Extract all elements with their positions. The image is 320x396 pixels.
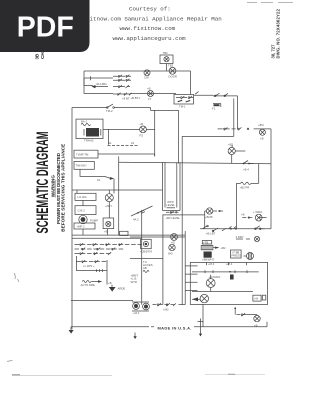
- arrow to timer A: [92, 82, 109, 88]
- relay CB/DTM: [140, 239, 153, 253]
- protector box inside motor box: [253, 295, 261, 301]
- diagonal jumper wire: [131, 206, 153, 222]
- svg-text:+MP 2: +MP 2: [77, 224, 86, 228]
- buzzer BZ bottom right: [254, 315, 260, 328]
- terminal square inside motor box: [262, 295, 266, 300]
- solenoid coil dark: [202, 252, 214, 262]
- dryness sensor cluster: [236, 235, 260, 242]
- svg-text:4A 12B4: 4A 12B4: [96, 82, 107, 86]
- wire inner top rail: [151, 108, 179, 111]
- header courtesy text line 4: [113, 35, 187, 42]
- pressure box: [231, 250, 242, 258]
- svg-text:+B2: +B2: [228, 143, 233, 147]
- lamp DOOR: [168, 64, 177, 79]
- wire main left rail: [71, 108, 73, 330]
- wire bus through AG: [130, 236, 185, 238]
- svg-text:CW: CW: [144, 76, 149, 80]
- dispenser box C-B: [75, 206, 96, 215]
- svg-text:www.applianceguru.com: www.applianceguru.com: [113, 35, 187, 42]
- motor AG2: [168, 244, 175, 255]
- svg-text:+KEY: +KEY: [105, 204, 112, 208]
- svg-text:+B: +B: [147, 86, 151, 90]
- svg-text:K1: K1: [97, 178, 101, 182]
- svg-text:C-B 2: C-B 2: [78, 208, 86, 212]
- svg-text:+B: +B: [140, 122, 144, 126]
- svg-text:MADE IN U.S.A.: MADE IN U.S.A.: [158, 325, 192, 330]
- wire level to buzzer rail: [162, 214, 204, 216]
- wire top bus L1: [84, 70, 191, 72]
- svg-text:TLMR TM: TLMR TM: [76, 152, 89, 156]
- wire vertical x182: [181, 136, 183, 304]
- sheet number text 38,727 (rotated): [270, 44, 275, 59]
- svg-text:AB: AB: [143, 266, 147, 270]
- contacts on lower bus: [202, 225, 264, 235]
- svg-text:+M 2: +M 2: [133, 311, 140, 315]
- svg-text:4A: 4A: [108, 141, 112, 145]
- header courtesy text line 2: [65, 16, 222, 23]
- wire stub row 4: [84, 93, 176, 95]
- svg-text:TB2: TB2: [168, 64, 174, 68]
- stray pen mark left margin: [14, 273, 19, 282]
- water level contacts: [166, 211, 181, 220]
- warning text line before servicing this appliance (rotated): [61, 144, 66, 232]
- wire from T2 to bus: [166, 64, 168, 72]
- svg-text:+M 4: +M 4: [208, 262, 215, 266]
- stray mark lower left margin: [7, 360, 13, 361]
- selector contacts row 4: [76, 260, 106, 268]
- water level switch channel: [163, 162, 181, 210]
- wire rinse rail: [72, 190, 163, 194]
- drawing number text DWG. NO. (rotated): [275, 8, 280, 58]
- wire lower-left bus: [71, 300, 133, 302]
- selector contacts row 2: [75, 248, 124, 251]
- svg-text:WTR: WTR: [131, 280, 137, 284]
- motor protector circle B2: [228, 143, 245, 164]
- svg-text:PUMP: PUMP: [90, 219, 98, 223]
- wire right rail lower: [270, 164, 272, 229]
- wire contacts to right chain: [194, 92, 238, 137]
- wash resistor coil: [81, 280, 103, 287]
- wire rail left of motor box: [184, 231, 186, 305]
- svg-text:24: 24: [131, 141, 135, 145]
- svg-text:PDF: PDF: [17, 11, 74, 43]
- buzzer B38: [205, 208, 223, 229]
- svg-text:3B: 3B: [34, 53, 39, 60]
- svg-text:+B LBT: +B LBT: [206, 232, 216, 236]
- svg-text:+B2 PR: +B2 PR: [240, 186, 250, 190]
- svg-text:+TB: +TB: [203, 240, 208, 244]
- PDF badge: [0, 0, 90, 52]
- heater contacts on right of bus: [243, 161, 254, 172]
- left labels water: [131, 274, 139, 284]
- wire transformer tap down: [107, 129, 109, 144]
- timer switch TM-1 box: [174, 95, 194, 109]
- motor box inlet stubs: [186, 266, 201, 301]
- svg-text:TRANS: TRANS: [84, 139, 94, 143]
- wire interlock lower with arrow: [80, 169, 114, 182]
- svg-text:+B: +B: [104, 230, 108, 234]
- wire top of main box with switch TM-2: [72, 104, 151, 113]
- header courtesy text line 1: [129, 6, 171, 13]
- motor 8M: [258, 123, 265, 140]
- svg-text:DOOR: DOOR: [169, 75, 177, 79]
- svg-text:+ WM4: + WM4: [253, 210, 262, 214]
- bottom return bus: [71, 322, 267, 327]
- wire vertical x114: [113, 179, 115, 194]
- title text SCHEMATIC DIAGRAM (rotated): [33, 132, 52, 234]
- svg-text:BEFORE SERVICING THIS APPLIANC: BEFORE SERVICING THIS APPLIANCE: [61, 144, 66, 232]
- wire inner rail x118: [118, 156, 120, 235]
- svg-text:www.fixitnow.com: www.fixitnow.com: [120, 25, 176, 32]
- svg-text:TIM-KEY: TIM-KEY: [76, 164, 87, 168]
- fuse box on bus: [120, 231, 129, 235]
- svg-text:TM-2: TM-2: [106, 109, 113, 113]
- wire long middle bus: [119, 162, 271, 164]
- svg-text:+B 4: +B 4: [243, 168, 249, 172]
- motor box capacitor mark: [230, 275, 234, 280]
- svg-text:DWG. NO. 72X4362Y22: DWG. NO. 72X4362Y22: [275, 8, 280, 58]
- pressure box with lamp: [103, 218, 114, 234]
- svg-text:4 DRY: 4 DRY: [236, 235, 244, 239]
- lamp P2: [140, 122, 147, 138]
- svg-text:+B: +B: [241, 213, 245, 217]
- wire right rail: [270, 129, 272, 164]
- node label BT1: [131, 96, 141, 100]
- wire right bus down: [190, 71, 192, 95]
- header courtesy text line 3: [120, 25, 176, 32]
- door switch bottom right: [236, 313, 257, 316]
- wire right lower bus: [200, 228, 271, 230]
- wire P2 to vertical: [146, 110, 154, 156]
- warning text line power must be disconnected (rotated): [56, 152, 61, 224]
- svg-text:+L W/S +: +L W/S +: [83, 264, 95, 268]
- svg-text:AG: AG: [171, 240, 175, 244]
- switch contacts SW3 row: [113, 85, 130, 88]
- svg-text:+B BT1: +B BT1: [131, 96, 141, 100]
- switch S5 on right chain: [214, 93, 228, 96]
- svg-text:ARDE: ARDE: [118, 287, 126, 291]
- wire cluster to motor box: [179, 304, 186, 306]
- wire node below motor box: [234, 307, 236, 314]
- svg-text:PRESS: PRESS: [232, 254, 242, 258]
- wire vertical x178: [178, 110, 180, 163]
- faint scan line top right: [247, 2, 293, 4]
- registration mark mid: [133, 333, 136, 340]
- svg-text:Courtesy of:: Courtesy of:: [129, 6, 171, 13]
- wire stub row 2: [84, 71, 113, 94]
- svg-text:+M2: +M2: [163, 307, 169, 311]
- selector wire with terminals: [76, 256, 107, 285]
- svg-text:TB2: TB2: [163, 51, 169, 55]
- bimetal contacts row: [218, 127, 271, 130]
- wire box top right section: [182, 135, 234, 137]
- main motor box: [190, 262, 267, 304]
- lamp LT: [147, 86, 154, 101]
- registration mark right: [198, 319, 204, 337]
- drive motor M2: [200, 294, 208, 302]
- return bus label: [146, 325, 192, 330]
- defrost heater branch: [236, 164, 258, 229]
- svg-text:TM-1: TM-1: [179, 105, 186, 109]
- svg-text:BA-1: BA-1: [81, 120, 88, 124]
- motor start relay cluster: [132, 302, 149, 315]
- svg-text:+8M: +8M: [258, 123, 264, 127]
- thermal fuse on step: [212, 104, 221, 111]
- faint fold line bottom: [12, 374, 265, 375]
- lamp CW: [144, 70, 150, 80]
- terminal box TB: [202, 240, 211, 244]
- svg-text:LO-WA: LO-WA: [78, 195, 87, 199]
- water valve WM: [241, 210, 267, 221]
- transformer T2 box top: [160, 51, 173, 64]
- svg-text:+B: +B: [260, 137, 264, 141]
- pump box: [74, 223, 95, 229]
- svg-text:+B/38: +B/38: [205, 215, 213, 219]
- svg-text:+M: +M: [254, 297, 259, 301]
- motor AG: [171, 234, 178, 245]
- wire transformer to right: [103, 128, 139, 130]
- svg-text:+M 4: +M 4: [226, 262, 233, 266]
- switch contacts SW2 row: [113, 79, 131, 82]
- svg-text:WO: WO: [168, 251, 174, 255]
- corner note 38 CM (rotated, under badge): [34, 49, 45, 59]
- transformer T1 core: [84, 128, 101, 143]
- selector contacts row 1: [75, 243, 143, 246]
- start switch slashes: [153, 303, 177, 311]
- svg-text:4A 2: 4A 2: [133, 218, 139, 222]
- interlock box: [74, 162, 94, 170]
- wire motor box to return bus: [202, 304, 204, 326]
- rinse box LO-WA: [75, 193, 96, 200]
- pump motor blob: [79, 215, 98, 223]
- heater element hatched: [201, 245, 226, 249]
- svg-text:LEVEL: LEVEL: [166, 203, 175, 207]
- lamp KEY: [105, 194, 113, 209]
- svg-text:P2: P2: [140, 134, 144, 138]
- timer motor box: [74, 150, 98, 158]
- svg-text:+8 BT: +8 BT: [122, 97, 130, 101]
- selector contacts row 3: [75, 252, 112, 255]
- svg-text:+M MAIN: +M MAIN: [209, 275, 221, 279]
- switch contacts SW1 row: [113, 75, 131, 78]
- motor box internal bus 2: [192, 291, 253, 293]
- drive motor M1: [206, 275, 215, 292]
- wire left column connectors: [83, 200, 109, 235]
- svg-text:+B2 LEVEL: +B2 LEVEL: [166, 216, 181, 220]
- svg-text:LT: LT: [148, 97, 151, 101]
- svg-text:+B8/WHT: +B8/WHT: [202, 258, 214, 262]
- transformer T1 box: [76, 119, 103, 139]
- wire section bus y258: [130, 258, 163, 260]
- hatched drum switch: [244, 252, 254, 259]
- terminal strip dashes: [108, 141, 138, 146]
- ground arrow left: [69, 327, 74, 334]
- motor box terminal labels: [207, 262, 247, 266]
- accessory text block: [143, 260, 153, 273]
- svg-text:SCHEMATIC DIAGRAM: SCHEMATIC DIAGRAM: [33, 132, 52, 234]
- wire double bus mid-left: [72, 235, 185, 238]
- svg-text:+B: +B: [108, 281, 112, 285]
- down arrow connector: [108, 281, 125, 292]
- wire row connector stubs: [84, 76, 93, 85]
- motor box internal bus: [192, 270, 259, 279]
- switch contacts SW4 row: [113, 93, 132, 101]
- svg-text:+B2: +B2: [221, 246, 226, 250]
- wire verticals mid column: [142, 210, 163, 305]
- wire timer to inner rail: [98, 154, 155, 156]
- svg-text:ACTO DRE: ACTO DRE: [81, 283, 96, 287]
- warning heading text (rotated): [51, 175, 56, 198]
- svg-text:F1: F1: [212, 107, 216, 111]
